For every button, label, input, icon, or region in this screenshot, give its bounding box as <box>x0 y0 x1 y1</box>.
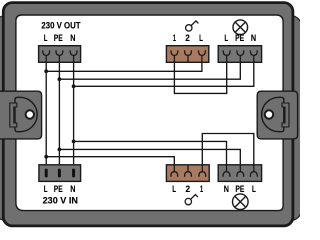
svg-text:N: N <box>70 33 75 43</box>
svg-text:L: L <box>44 33 48 43</box>
svg-text:N: N <box>70 184 75 194</box>
svg-text:PE: PE <box>235 184 244 194</box>
svg-text:PE: PE <box>54 33 63 43</box>
svg-text:1: 1 <box>173 33 176 43</box>
svg-text:L: L <box>199 33 203 43</box>
svg-text:2: 2 <box>185 33 190 43</box>
svg-text:PE: PE <box>235 33 244 43</box>
svg-text:L: L <box>172 184 176 194</box>
svg-text:L: L <box>44 184 48 194</box>
svg-text:L: L <box>224 33 228 43</box>
svg-text:230 V IN: 230 V IN <box>43 196 78 207</box>
svg-text:230 V OUT: 230 V OUT <box>41 21 80 31</box>
svg-text:N: N <box>251 33 256 43</box>
svg-text:PE: PE <box>54 184 63 194</box>
svg-text:L: L <box>252 184 256 194</box>
svg-text:N: N <box>224 184 229 194</box>
svg-text:2: 2 <box>186 184 191 194</box>
svg-text:1: 1 <box>200 184 203 194</box>
